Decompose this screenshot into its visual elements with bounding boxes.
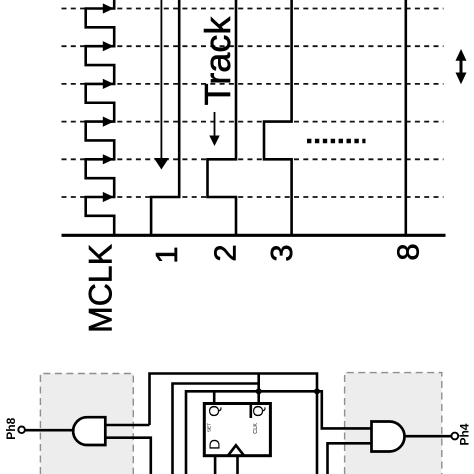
wire H1 (Qbar feedback top loop) bbox=[150, 374, 318, 474]
svg-text:SET: SET bbox=[207, 423, 212, 432]
phase 2 waveform bbox=[208, 0, 237, 235]
wire H3 (Q loop) bbox=[186, 391, 372, 474]
wire Qbar pin vertical bbox=[257, 374, 260, 404]
MCLK edge arrowheads bbox=[103, 3, 114, 202]
wire Ph4 output bbox=[405, 435, 452, 438]
svg-text:8: 8 bbox=[390, 243, 425, 260]
svg-text:2: 2 bbox=[208, 244, 243, 261]
phase 3 waveform bbox=[264, 0, 292, 235]
svg-text:MCLK: MCLK bbox=[83, 244, 119, 333]
grid lines (clock-edge gridlines) bbox=[62, 9, 444, 198]
wire AND-R lower input bbox=[328, 443, 372, 474]
AND gate right (Ph4) bbox=[372, 422, 405, 452]
phase 8 waveform bbox=[404, 0, 407, 235]
svg-text:Q: Q bbox=[206, 405, 223, 417]
svg-text:Ph4: Ph4 bbox=[458, 423, 472, 445]
wire AND-L lower input bbox=[105, 438, 151, 474]
FF CLK pin wire bbox=[236, 456, 239, 474]
junction dot B bbox=[314, 388, 320, 394]
period double arrow bbox=[456, 49, 467, 84]
dashed region left (Ph8 block) bbox=[40, 374, 133, 474]
svg-text:D: D bbox=[206, 439, 223, 450]
dashed region right (Ph4 block) bbox=[345, 373, 442, 474]
svg-text:Ph8: Ph8 bbox=[4, 417, 18, 439]
svg-text:1: 1 bbox=[149, 246, 184, 263]
FF clock wedge bbox=[228, 445, 244, 455]
phase 1 waveform bbox=[151, 0, 179, 235]
wire H2 (middle loop) bbox=[173, 384, 259, 474]
svg-text:Q: Q bbox=[250, 405, 267, 417]
AND gate left (Ph8) bbox=[73, 417, 105, 445]
terminal Ph8 bbox=[18, 427, 25, 434]
svg-text:3: 3 bbox=[264, 244, 299, 261]
MCLK waveform bbox=[86, 0, 115, 235]
axis (baseline of timing diagram) bbox=[62, 234, 446, 237]
D flip-flop U1 bbox=[204, 404, 270, 456]
wire Q pin vertical bbox=[213, 391, 216, 403]
long pointer arrow bbox=[154, 0, 169, 170]
Track arrow bbox=[209, 112, 219, 146]
svg-text:CLK: CLK bbox=[253, 423, 259, 434]
ellipsis dots (omitted phases) bbox=[307, 139, 366, 143]
wire Ph8 output bbox=[24, 429, 73, 432]
junction dot A bbox=[256, 388, 262, 394]
terminal Ph4 bbox=[451, 433, 458, 440]
svg-text:Track: Track bbox=[197, 16, 238, 106]
wire AND-L upper input bbox=[105, 424, 149, 427]
FF D pin wire bbox=[214, 456, 217, 474]
